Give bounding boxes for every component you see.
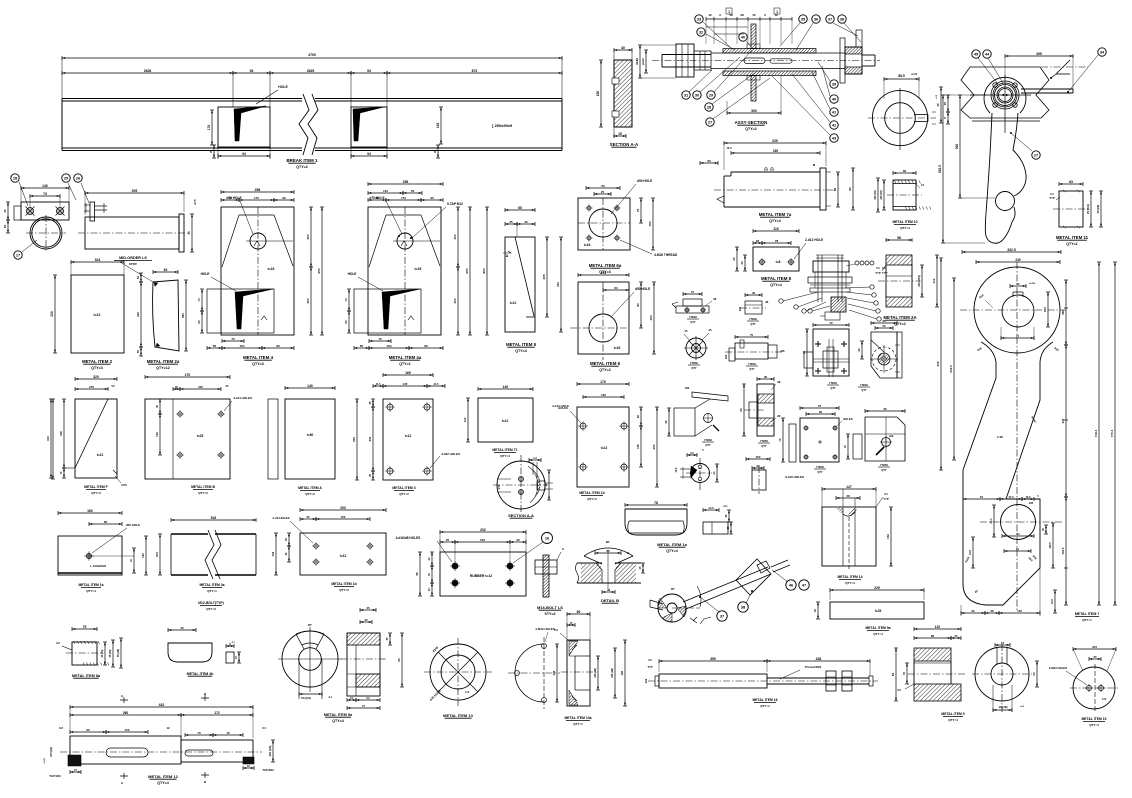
- svg-text:METAL ITEM 7: METAL ITEM 7: [1075, 612, 1100, 616]
- svg-text:112: 112: [932, 278, 936, 283]
- assembly bottom dim 300: [727, 76, 781, 115]
- svg-text:40: 40: [752, 291, 756, 295]
- svg-text:164: 164: [436, 123, 440, 129]
- svg-text:120: 120: [141, 553, 145, 558]
- svg-text:75: 75: [636, 209, 640, 213]
- svg-text:650: 650: [317, 268, 321, 273]
- label round flange: [858, 383, 870, 392]
- svg-text:ITEM: ITEM: [860, 383, 868, 387]
- svg-text:78: 78: [411, 189, 415, 193]
- svg-text:80: 80: [739, 408, 743, 412]
- svg-text:METAL ITEM 10a: METAL ITEM 10a: [564, 716, 591, 720]
- svg-text:METAL ITEM F: METAL ITEM F: [84, 485, 107, 489]
- section A-A disc: [493, 455, 553, 512]
- svg-text:d6: d6: [713, 297, 717, 301]
- svg-text:d75 (k6): d75 (k6): [49, 747, 53, 757]
- svg-text:770.3: 770.3: [1110, 429, 1114, 437]
- metal item 4a trapezoid plate: [344, 180, 489, 350]
- svg-text:QTY=4: QTY=4: [500, 454, 510, 458]
- label METAL ITEM 7a: [759, 212, 792, 223]
- svg-text:150: 150: [596, 91, 600, 97]
- svg-text:110: 110: [773, 227, 779, 231]
- label METAL ITEM 6: [590, 361, 621, 372]
- svg-text:65: 65: [360, 344, 364, 348]
- svg-text:16.6: 16.6: [1025, 495, 1031, 499]
- svg-text:80: 80: [636, 303, 640, 307]
- fastener assembly stack: [808, 255, 852, 320]
- svg-text:C1: C1: [876, 266, 880, 270]
- round flange with hub: [857, 319, 902, 378]
- svg-text:229: 229: [874, 586, 880, 590]
- svg-text:300: 300: [751, 109, 757, 113]
- svg-text:62: 62: [891, 673, 895, 677]
- channel with break: [155, 516, 256, 579]
- label METAL ITEM 8: [761, 276, 792, 287]
- svg-text:25: 25: [509, 220, 513, 224]
- svg-text:38: 38: [990, 609, 994, 613]
- svg-text:45°: 45°: [308, 623, 313, 627]
- lever boss bearing: [970, 75, 1031, 133]
- svg-text:L 120x80x8: L 120x80x8: [90, 564, 106, 568]
- svg-text:QTY: QTY: [691, 366, 697, 370]
- svg-text:63: 63: [614, 286, 618, 290]
- svg-text:t=12: t=12: [97, 453, 104, 457]
- svg-text:21.5: 21.5: [376, 383, 381, 386]
- svg-text:QTY=4: QTY=4: [769, 219, 781, 223]
- svg-text:METAL ITEM B: METAL ITEM B: [191, 485, 215, 489]
- svg-text:QTY=2: QTY=2: [305, 492, 315, 496]
- svg-text:163: 163: [601, 271, 607, 275]
- assembly balloons left bottom: [682, 50, 770, 126]
- svg-text:72: 72: [829, 321, 833, 325]
- svg-text:130: 130: [601, 393, 606, 397]
- svg-text:METAL ITEM 1a: METAL ITEM 1a: [78, 583, 103, 587]
- label METAL ITEM 5: [506, 342, 537, 353]
- svg-text:C1: C1: [884, 492, 888, 496]
- turnbuckle mechanism: [650, 559, 790, 624]
- beam notch dimensions: [207, 107, 443, 159]
- svg-text:27: 27: [1034, 152, 1038, 157]
- angle plate with hole: [58, 509, 148, 575]
- cup bushing section: [554, 610, 627, 706]
- svg-text:QTY=1: QTY=1: [399, 362, 411, 366]
- svg-text:HOLE: HOLE: [278, 85, 288, 89]
- svg-text:150: 150: [648, 221, 652, 226]
- label METAL ITEM 6a: [589, 263, 622, 274]
- svg-text:75: 75: [750, 333, 754, 337]
- svg-text:40: 40: [813, 609, 817, 613]
- svg-text:25: 25: [1093, 655, 1097, 659]
- beam notch detail 1 with weld wedge: [218, 85, 288, 147]
- svg-text:70: 70: [197, 731, 201, 735]
- plate T1: [463, 385, 569, 442]
- svg-text:240: 240: [1015, 258, 1021, 262]
- svg-text:4700: 4700: [308, 53, 316, 57]
- keyed boss section: [739, 375, 781, 436]
- beam notch detail 2 with weld wedge: [351, 107, 387, 147]
- label cross flange: [827, 381, 839, 390]
- svg-text:270: 270: [89, 385, 94, 389]
- small block part: [738, 291, 769, 326]
- svg-text:t=12: t=12: [340, 554, 347, 558]
- svg-text:d20: d20: [738, 306, 742, 311]
- svg-text:METAL ITEM 3a: METAL ITEM 3a: [199, 583, 224, 587]
- ring part: [868, 73, 943, 150]
- svg-text:12: 12: [166, 726, 170, 730]
- svg-text:b: b: [562, 547, 564, 551]
- svg-text:METAL ITEM 1a: METAL ITEM 1a: [657, 542, 687, 547]
- svg-text:65 (h9): 65 (h9): [109, 649, 112, 657]
- svg-text:83: 83: [424, 344, 428, 348]
- svg-text:75: 75: [691, 290, 695, 294]
- svg-text:QTY=4: QTY=4: [1089, 723, 1099, 727]
- svg-text:STIFF: STIFF: [129, 262, 137, 266]
- label section A-A disc: [508, 513, 534, 518]
- label two hole disc: [1081, 717, 1106, 727]
- svg-text:t=16: t=16: [415, 267, 422, 271]
- svg-text:TAP M10: TAP M10: [262, 768, 274, 772]
- svg-text:HOLE: HOLE: [348, 272, 357, 276]
- svg-text:110: 110: [463, 417, 467, 422]
- svg-text:ITEM: ITEM: [760, 439, 768, 443]
- svg-text:80: 80: [848, 187, 852, 191]
- svg-text:QTY=4: QTY=4: [332, 719, 344, 723]
- svg-text:250: 250: [652, 444, 656, 449]
- svg-text:t=25: t=25: [197, 434, 204, 438]
- svg-text:40: 40: [187, 231, 191, 235]
- svg-text:160: 160: [773, 149, 779, 153]
- svg-text:140: 140: [383, 189, 388, 193]
- label keyed boss: [758, 439, 770, 448]
- svg-text:4-d9 HOLES: 4-d9 HOLES: [272, 516, 289, 520]
- svg-text:d72: d72: [1092, 645, 1098, 649]
- svg-text:60: 60: [971, 609, 975, 613]
- svg-text:65 (H8): 65 (H8): [117, 649, 120, 657]
- svg-text:40: 40: [832, 96, 836, 101]
- svg-text:45°: 45°: [671, 587, 676, 591]
- svg-text:10.5: 10.5: [1051, 599, 1054, 604]
- svg-text:QTY=1: QTY=1: [760, 704, 770, 708]
- svg-text:47.6: 47.6: [1008, 495, 1014, 499]
- svg-text:30: 30: [756, 464, 760, 468]
- metal item 6a plate with bore: [503, 179, 678, 258]
- svg-text:17: 17: [16, 252, 20, 257]
- svg-text:d20: d20: [724, 354, 728, 359]
- svg-text:TYP: TYP: [647, 665, 652, 669]
- svg-text:75: 75: [818, 404, 822, 408]
- svg-text:258: 258: [255, 188, 261, 192]
- bracket with chamfer and pin: [782, 406, 905, 461]
- svg-text:169: 169: [405, 371, 411, 375]
- label knurled block: [72, 674, 101, 678]
- svg-text:150: 150: [636, 444, 640, 449]
- svg-text:63: 63: [707, 159, 711, 163]
- svg-text:QTY=12: QTY=12: [156, 366, 169, 370]
- svg-text:TYP: TYP: [875, 271, 881, 275]
- svg-text:85: 85: [606, 549, 610, 553]
- hub section: [341, 606, 404, 710]
- svg-text:260: 260: [123, 711, 129, 715]
- label SECTION A-A plate: [610, 142, 639, 147]
- svg-text:ITEM: ITEM: [748, 362, 756, 366]
- label spoke wheel: [688, 361, 700, 370]
- svg-text:METAL ITEM 2: METAL ITEM 2: [82, 359, 113, 364]
- svg-text:330: 330: [556, 282, 560, 287]
- spoke wheel part: [684, 328, 712, 360]
- svg-text:73: 73: [43, 192, 47, 196]
- svg-text:120: 120: [480, 538, 485, 542]
- svg-text:QTY=4: QTY=4: [666, 549, 678, 553]
- label METAL ITEM A: [298, 486, 322, 496]
- four hole plate row2: [352, 371, 460, 480]
- label flat bar 9a: [865, 626, 890, 636]
- svg-text:432: 432: [159, 703, 165, 707]
- svg-text:d50 HOLE: d50 HOLE: [126, 523, 140, 527]
- svg-text:47: 47: [802, 582, 806, 587]
- svg-text:METAL ITEM 6a: METAL ITEM 6a: [589, 263, 622, 268]
- svg-text:96: 96: [883, 407, 887, 411]
- svg-text:345: 345: [936, 361, 940, 366]
- svg-text:TYP: TYP: [883, 497, 889, 501]
- svg-text:58: 58: [897, 236, 901, 240]
- label threaded rod: [752, 698, 777, 708]
- dome D plate: [508, 627, 560, 709]
- svg-text:150.5: 150.5: [1061, 547, 1065, 554]
- svg-text:C1: C1: [921, 183, 925, 187]
- svg-text:332.5: 332.5: [1007, 248, 1016, 252]
- svg-text:178: 178: [207, 125, 211, 131]
- svg-text:63: 63: [1069, 180, 1073, 184]
- svg-text:90: 90: [282, 196, 286, 200]
- svg-text:53 (h9): 53 (h9): [301, 696, 311, 700]
- rod item 34: [1021, 60, 1073, 93]
- label METAL ITEM 1b: [579, 491, 604, 501]
- svg-text:150: 150: [155, 432, 159, 437]
- svg-text:80: 80: [931, 634, 935, 638]
- svg-text:HOLES: HOLES: [843, 417, 853, 421]
- svg-text:70: 70: [378, 337, 382, 341]
- svg-text:40: 40: [732, 257, 736, 261]
- svg-text:d60: d60: [685, 386, 690, 390]
- svg-text:94: 94: [250, 69, 254, 73]
- svg-text:324: 324: [95, 258, 101, 262]
- svg-text:16: 16: [1001, 641, 1005, 645]
- svg-text:QTY=2: QTY=2: [587, 497, 597, 501]
- svg-text:BREAK ITEM 1: BREAK ITEM 1: [287, 158, 319, 163]
- svg-text:QTY: QTY: [830, 386, 836, 390]
- svg-text:850: 850: [482, 268, 486, 273]
- svg-text:2629: 2629: [307, 69, 315, 73]
- svg-text:240: 240: [552, 670, 556, 675]
- svg-text:18 [18]: 18 [18]: [999, 705, 1008, 709]
- svg-text:65: 65: [833, 188, 837, 192]
- lever balloons: [972, 48, 1106, 159]
- svg-text:TAP M10: TAP M10: [49, 774, 61, 778]
- svg-text:4-M12 HOLES: 4-M12 HOLES: [535, 627, 555, 631]
- label METAL ITEM 7: [1075, 612, 1100, 622]
- tiny key rect: [226, 642, 241, 663]
- pin cylinder part: [746, 455, 804, 494]
- svg-text:QTY: QTY: [881, 468, 887, 472]
- svg-text:QTY=4: QTY=4: [770, 283, 782, 287]
- label bushing 9: [941, 712, 964, 722]
- svg-text:203: 203: [340, 506, 346, 510]
- svg-text:24.5: 24.5: [1044, 306, 1047, 311]
- svg-text:C2: C2: [554, 628, 558, 632]
- svg-text:METAL ITEM 15: METAL ITEM 15: [1081, 717, 1106, 721]
- large plate dims: [936, 248, 1117, 616]
- label BREAK ITEM 1: [287, 158, 319, 169]
- assembly left bore dims: [635, 45, 676, 78]
- svg-text:QTY: QTY: [705, 443, 711, 447]
- svg-text:+0.25: +0.25: [911, 73, 918, 76]
- label METAL ITEM 14: [837, 575, 862, 585]
- svg-text:QTY=2: QTY=2: [599, 368, 611, 372]
- metal item 7a shaft: [700, 139, 855, 210]
- svg-text:15: 15: [618, 132, 622, 136]
- metal item 10 section: [874, 169, 931, 212]
- svg-text:150: 150: [1017, 609, 1022, 613]
- svg-text:170: 170: [185, 373, 191, 377]
- svg-text:t=6: t=6: [1102, 697, 1107, 701]
- svg-text:TYP: TYP: [882, 271, 888, 275]
- svg-text:350: 350: [710, 657, 716, 661]
- svg-text:220: 220: [50, 311, 54, 317]
- svg-text:QTY=4: QTY=4: [845, 581, 855, 585]
- svg-text:RUBBER t=12: RUBBER t=12: [470, 574, 492, 578]
- turnbuckle balloons 37 38 46 47: [699, 570, 809, 621]
- svg-text:t=16: t=16: [614, 346, 621, 350]
- svg-text:30: 30: [695, 92, 699, 97]
- svg-text:60: 60: [636, 415, 640, 419]
- svg-text:258: 258: [403, 180, 409, 184]
- svg-text:QTY: QTY: [761, 444, 767, 448]
- svg-text:145: 145: [403, 382, 408, 386]
- svg-text:350: 350: [453, 234, 457, 239]
- svg-text:METAL ITEM 14: METAL ITEM 14: [837, 575, 862, 579]
- svg-text:96: 96: [882, 319, 886, 323]
- svg-text:12: 12: [708, 13, 712, 17]
- label channel: [199, 583, 224, 593]
- svg-text:t=16: t=16: [584, 243, 591, 247]
- svg-text:20: 20: [943, 102, 947, 106]
- label main shaft: [148, 774, 178, 785]
- svg-text:45: 45: [209, 150, 213, 154]
- flat bar item 9a: [813, 586, 924, 619]
- svg-text:105.5: 105.5: [1049, 542, 1052, 549]
- svg-text:140: 140: [307, 384, 313, 388]
- svg-text:d40 (H8): d40 (H8): [594, 668, 597, 678]
- svg-text:METAL ITEM 4a: METAL ITEM 4a: [389, 355, 422, 360]
- svg-text:C1: C1: [262, 726, 266, 730]
- svg-text:200: 200: [155, 552, 159, 557]
- svg-text:21.5: 21.5: [434, 383, 439, 386]
- metal item 4 trapezoid plate: [197, 188, 324, 350]
- label washer: [443, 713, 473, 718]
- svg-text:QTY=4: QTY=4: [515, 349, 527, 353]
- svg-text:METAL ITEM 8a: METAL ITEM 8a: [72, 674, 101, 678]
- svg-text:4-d22 HOLES: 4-d22 HOLES: [441, 452, 460, 456]
- svg-text:QTY: QTY: [817, 470, 823, 474]
- svg-text:M12-BOLT(TYP): M12-BOLT(TYP): [198, 601, 224, 605]
- svg-text:127: 127: [846, 485, 852, 489]
- small bracket part: [672, 290, 717, 324]
- svg-text:t=12: t=12: [502, 419, 509, 423]
- svg-text:METAL ITEM 3: METAL ITEM 3: [392, 486, 415, 490]
- svg-text:p110: p110: [641, 58, 645, 65]
- svg-text:d70: d70: [193, 199, 197, 205]
- svg-text:QTY: QTY: [690, 320, 696, 324]
- svg-text:QTY=3: QTY=3: [206, 607, 216, 611]
- label angle plate: [78, 583, 103, 593]
- svg-text:52: 52: [882, 324, 886, 328]
- plain plate with side strip: [268, 384, 335, 479]
- svg-text:t=3: t=3: [465, 690, 470, 694]
- svg-text:METAL ITEM 4: METAL ITEM 4: [243, 355, 274, 360]
- svg-text:150: 150: [124, 728, 129, 732]
- svg-text:d10: d10: [889, 435, 894, 438]
- svg-text:516: 516: [211, 516, 217, 520]
- svg-text:16.5: 16.5: [969, 549, 972, 554]
- svg-text:65: 65: [197, 320, 201, 324]
- svg-text:30: 30: [516, 538, 520, 542]
- svg-text:C2: C2: [897, 688, 901, 692]
- svg-text:1: 1: [776, 10, 778, 14]
- svg-text:94: 94: [242, 152, 246, 156]
- svg-text:65: 65: [518, 206, 522, 210]
- svg-text:QTY=2: QTY=2: [91, 491, 101, 495]
- svg-text:140: 140: [503, 385, 509, 389]
- svg-text:110: 110: [935, 625, 941, 629]
- svg-text:90°: 90°: [606, 540, 611, 544]
- metal item 2 plate: [50, 258, 124, 353]
- svg-text:M16-BOLT LS: M16-BOLT LS: [537, 605, 563, 610]
- svg-text:t=12: t=12: [510, 301, 517, 305]
- svg-text:25: 25: [306, 515, 310, 519]
- label M12 bolt typ: [198, 601, 224, 611]
- svg-text:60: 60: [577, 610, 581, 614]
- svg-text:202: 202: [480, 528, 486, 532]
- svg-text:65: 65: [86, 728, 90, 732]
- svg-text:QTY=1: QTY=1: [573, 722, 583, 726]
- svg-text:Thread M24: Thread M24: [805, 665, 822, 669]
- label METAL ITEM F: [84, 485, 107, 495]
- svg-text:STY=2: STY=2: [544, 612, 555, 616]
- svg-text:4-d14 HOLES: 4-d14 HOLES: [233, 396, 252, 400]
- svg-text:37: 37: [828, 16, 832, 21]
- svg-text:164: 164: [386, 344, 391, 348]
- svg-text:QTY=4: QTY=4: [86, 589, 96, 593]
- svg-text:74: 74: [344, 298, 348, 302]
- two hole disc: [1049, 645, 1119, 711]
- svg-text:152: 152: [886, 534, 890, 539]
- svg-text:32: 32: [3, 225, 7, 229]
- svg-text:d16: d16: [780, 349, 785, 353]
- svg-text:METAL ITEM 2a: METAL ITEM 2a: [147, 359, 180, 364]
- svg-text:t=12: t=12: [405, 434, 412, 438]
- svg-text:3.5: 3.5: [690, 451, 694, 455]
- label METAL ITEM 10: [892, 220, 917, 230]
- svg-text:360: 360: [1061, 310, 1065, 315]
- svg-text:5-TAP M12: 5-TAP M12: [447, 202, 463, 206]
- lever arm and hook: [985, 113, 1026, 243]
- svg-text:QTY=4: QTY=4: [900, 226, 910, 230]
- svg-text:650: 650: [465, 268, 469, 273]
- svg-text:22: 22: [756, 239, 760, 243]
- svg-text:20: 20: [936, 103, 940, 106]
- svg-text:QTY=3: QTY=3: [91, 366, 103, 370]
- svg-text:C2: C2: [56, 641, 60, 645]
